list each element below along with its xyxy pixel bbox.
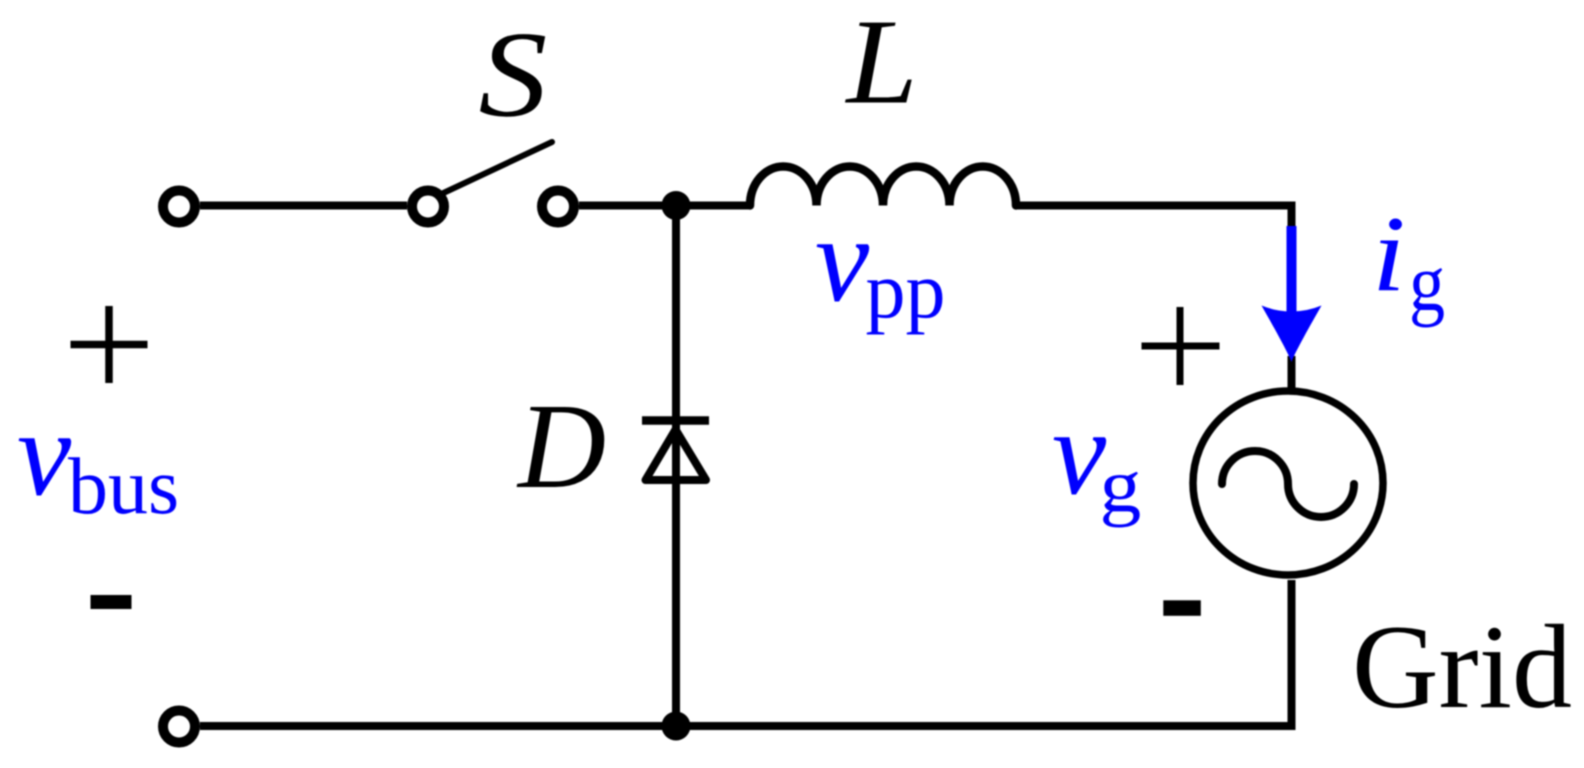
svg-text:S: S bbox=[479, 7, 548, 143]
svg-text:D: D bbox=[516, 379, 606, 514]
svg-text:v: v bbox=[17, 387, 72, 522]
svg-text:i: i bbox=[1372, 194, 1406, 314]
svg-text:Grid: Grid bbox=[1352, 600, 1572, 733]
svg-text:g: g bbox=[1409, 237, 1445, 328]
svg-text:bus: bus bbox=[68, 443, 179, 531]
svg-text:pp: pp bbox=[866, 248, 946, 336]
svg-text:L: L bbox=[844, 0, 917, 130]
svg-text:v: v bbox=[815, 193, 870, 328]
svg-text:g: g bbox=[1100, 444, 1142, 528]
